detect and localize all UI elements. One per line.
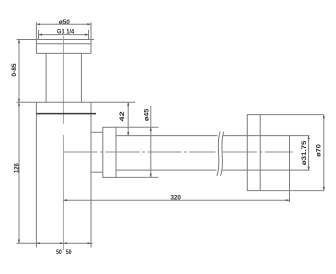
nut bottom extension line	[116, 176, 159, 178]
wall flange plate	[247, 115, 260, 191]
body top line (with extensions)	[17, 101, 135, 103]
outlet pipe top wall (right of break)	[223, 135, 310, 137]
body right edge	[90, 102, 92, 243]
50-50 extension tick right	[90, 243, 92, 247]
svg-text:ø70: ø70	[315, 144, 322, 157]
horizontal centerline	[63, 151, 215, 153]
wall flange top extension	[260, 114, 324, 116]
outlet nut	[103, 127, 116, 177]
pipe break curve left	[217, 132, 220, 176]
label 50 right	[66, 249, 72, 256]
label ø31.75	[301, 140, 308, 165]
svg-text:50: 50	[56, 249, 62, 256]
inlet pipe right wall	[80, 53, 82, 102]
nut top extension line	[116, 126, 159, 128]
svg-text:ø31.75: ø31.75	[301, 140, 308, 165]
50-50 arrows	[36, 242, 91, 244]
svg-text:42: 42	[119, 111, 126, 122]
wall flange bottom extension	[260, 190, 324, 192]
svg-text:0-85: 0-85	[11, 63, 18, 77]
label 126	[14, 163, 21, 173]
svg-text:50: 50	[66, 249, 72, 256]
dimension 320 line	[63, 199, 289, 201]
inlet flange right edge	[90, 22, 92, 53]
outlet pipe bottom wall (right of break)	[222, 169, 310, 171]
50-50 extension tick left	[35, 243, 37, 247]
label ø45	[144, 108, 151, 121]
inlet flange chamfer line	[36, 43, 91, 45]
dimension G1 1/4 label	[57, 29, 75, 36]
label 42	[119, 111, 126, 122]
outlet boss top	[91, 131, 103, 133]
dimension 126 line	[18, 102, 20, 243]
body collar line	[36, 113, 96, 115]
G1 1/4 extension tick right	[88, 30, 90, 39]
G1 1/4 extension tick left	[38, 30, 40, 39]
inlet pipe left wall	[45, 53, 47, 102]
inlet flange left edge	[35, 22, 37, 53]
inlet flange top line (with extensions)	[17, 39, 94, 41]
label 0-85	[11, 63, 18, 77]
outlet boss bottom	[91, 171, 103, 173]
svg-text:ø50: ø50	[59, 19, 70, 26]
outlet pipe top wall (left of break)	[116, 135, 217, 137]
dimension ø31.75 line	[308, 136, 310, 171]
outlet pipe bottom wall (left of break)	[116, 169, 216, 171]
dimension ø45 line	[150, 106, 152, 177]
dimension ø50 line	[37, 23, 90, 25]
pipe end wall / 320 extension	[289, 136, 291, 203]
dimension 42 line	[127, 102, 129, 135]
vertical centerline	[62, 36, 64, 124]
svg-text:ø45: ø45	[144, 108, 151, 121]
dimension ø50 label	[59, 19, 70, 26]
label 320	[170, 194, 181, 201]
label ø70	[315, 144, 322, 157]
pipe break curve right	[221, 132, 224, 176]
dimension ø70 line	[323, 115, 325, 191]
inlet flange bottom	[36, 52, 91, 54]
dimension G1 1/4 line	[39, 34, 89, 36]
body left edge	[35, 102, 37, 243]
dimension 0-85 line	[18, 40, 20, 103]
svg-text:320: 320	[170, 194, 181, 201]
body bottom / 50-50 dimension line	[17, 242, 93, 244]
label 50 left	[56, 249, 62, 256]
svg-text:126: 126	[14, 163, 21, 173]
